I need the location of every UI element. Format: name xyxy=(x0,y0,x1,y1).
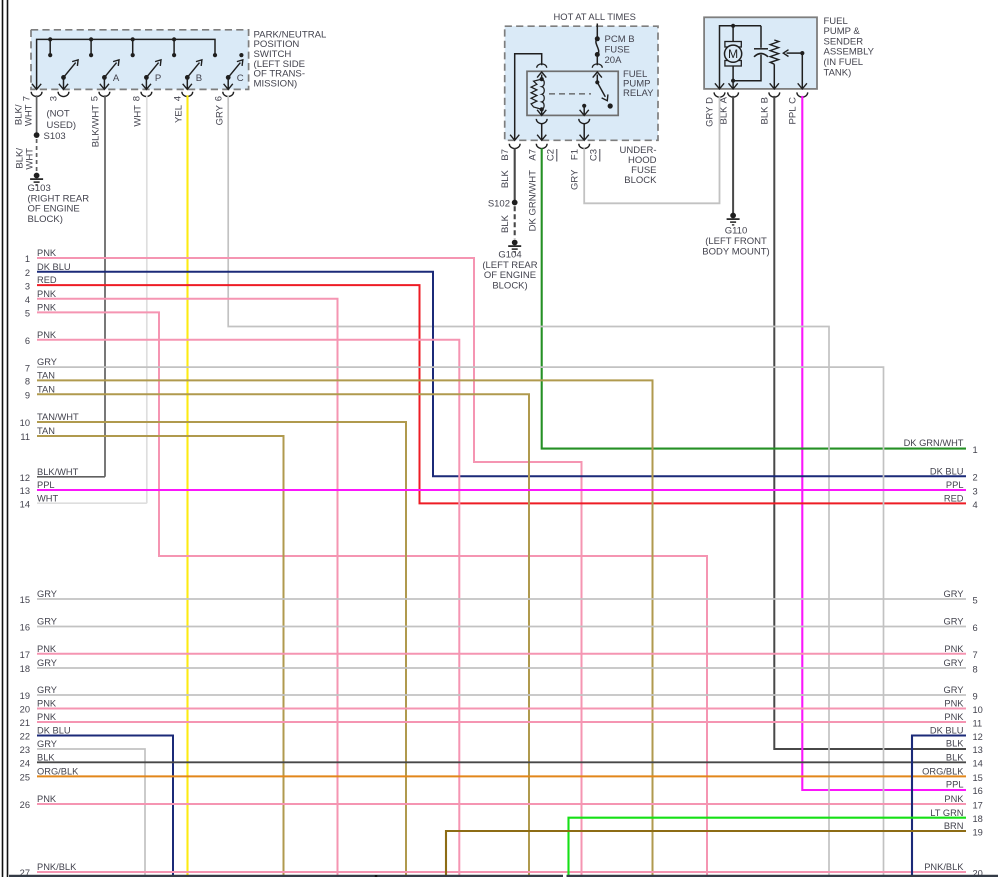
capacitor C1 xyxy=(754,26,768,57)
fuel pump and sender assembly box xyxy=(704,17,817,89)
svg-text:M: M xyxy=(728,47,738,61)
wire BRN PCM 19 xyxy=(446,821,983,877)
ground G103 xyxy=(28,173,90,225)
svg-text:PNK: PNK xyxy=(37,644,57,654)
wire WHT pin8 to row 14 xyxy=(146,95,148,503)
wire BLK S102 to G104 xyxy=(500,206,515,238)
relay pin 30 to fuse block edge xyxy=(579,119,590,140)
svg-text:DK BLU: DK BLU xyxy=(930,466,964,476)
svg-text:25: 25 xyxy=(20,773,30,783)
ground G104 xyxy=(482,240,537,292)
svg-text:1: 1 xyxy=(973,445,978,455)
svg-text:7: 7 xyxy=(25,363,30,373)
wire PPL pump C to PCM 16 xyxy=(802,96,983,796)
svg-text:DK BLU: DK BLU xyxy=(930,726,964,736)
svg-text:GRY: GRY xyxy=(215,104,226,125)
svg-text:(NOT: (NOT xyxy=(47,109,70,120)
switch blade C xyxy=(224,58,246,90)
splice S102 xyxy=(488,198,518,209)
svg-text:S103: S103 xyxy=(44,131,66,142)
switch pin 8 terminal xyxy=(132,92,152,127)
wire BLK pump A to G110 xyxy=(732,96,734,213)
svg-text:15: 15 xyxy=(20,595,30,605)
pump pin A terminal xyxy=(719,83,739,124)
wire TAN/WHT left row 10 xyxy=(20,412,406,877)
svg-text:PNK: PNK xyxy=(37,248,57,258)
switch bus wire xyxy=(37,39,215,89)
svg-text:GRY: GRY xyxy=(37,658,57,668)
svg-text:C2: C2 xyxy=(546,149,557,161)
svg-text:BLK: BLK xyxy=(760,106,771,125)
svg-text:9: 9 xyxy=(25,390,30,400)
svg-text:3: 3 xyxy=(973,486,978,496)
svg-text:GRY: GRY xyxy=(37,617,57,627)
wire PPL left row 13 xyxy=(20,480,966,496)
svg-text:12: 12 xyxy=(20,473,30,483)
svg-text:USED): USED) xyxy=(47,120,77,131)
svg-text:1: 1 xyxy=(25,254,30,264)
svg-text:15: 15 xyxy=(973,773,983,783)
svg-text:BLK/WHT: BLK/WHT xyxy=(37,467,79,477)
svg-text:11: 11 xyxy=(20,432,30,442)
svg-text:4: 4 xyxy=(25,295,30,305)
switch pin 7 terminal xyxy=(14,84,43,126)
wire DK BLU left row 22 xyxy=(20,726,173,877)
svg-text:BLK B7: BLK B7 xyxy=(500,149,511,188)
svg-text:6: 6 xyxy=(973,623,978,633)
wire RED left row 3 xyxy=(25,275,966,503)
park/neutral position switch S1 box xyxy=(31,30,249,90)
wire BLK/WHT left row 12 xyxy=(20,467,105,483)
svg-text:11: 11 xyxy=(973,718,983,728)
switch pin 5 terminal xyxy=(90,92,110,147)
svg-text:BLOCK): BLOCK) xyxy=(492,280,527,291)
pump internal bus wires xyxy=(720,24,762,89)
svg-text:PNK: PNK xyxy=(37,303,57,313)
svg-text:6: 6 xyxy=(25,336,30,346)
switch pin 3 terminal (not used) xyxy=(47,92,77,131)
wire PNK left row 21 xyxy=(20,712,966,728)
svg-text:20: 20 xyxy=(20,705,30,715)
svg-text:13: 13 xyxy=(973,745,983,755)
svg-text:PNK: PNK xyxy=(37,289,57,299)
switch bus junction dots xyxy=(48,37,176,41)
battery feed wire xyxy=(596,24,598,39)
svg-text:9: 9 xyxy=(973,691,978,701)
wire GRY left row 23 xyxy=(20,739,145,877)
wire GRY F1 to pump pin D xyxy=(584,96,719,203)
wire PNK left row 5 xyxy=(25,303,707,877)
svg-text:20A: 20A xyxy=(605,55,623,66)
svg-text:BODY MOUNT): BODY MOUNT) xyxy=(702,246,769,257)
svg-text:WHT: WHT xyxy=(24,104,35,126)
svg-text:18: 18 xyxy=(973,814,983,824)
svg-text:12: 12 xyxy=(973,732,983,742)
wire DK GRN/WHT A7 to PCM 1 xyxy=(542,148,978,455)
svg-text:19: 19 xyxy=(973,827,983,837)
switch pin 4 terminal xyxy=(173,92,193,123)
fuel level sender R1 xyxy=(770,40,779,89)
svg-text:17: 17 xyxy=(20,650,30,660)
wire BLK pump B to PCM 13 xyxy=(774,96,983,755)
fuel pump relay box xyxy=(527,71,618,115)
svg-text:TAN: TAN xyxy=(37,371,55,381)
svg-text:YEL: YEL xyxy=(174,105,185,123)
svg-text:21: 21 xyxy=(20,718,30,728)
svg-text:C3: C3 xyxy=(589,149,600,161)
wire BLK/WHT pin5 to row 12 xyxy=(104,95,106,477)
wire DK BLU left row 2 xyxy=(25,262,966,477)
svg-text:BRN: BRN xyxy=(944,821,964,831)
switch fixed contact dots xyxy=(48,53,243,57)
label fuel pump and sender assembly xyxy=(824,16,875,79)
svg-text:FUSE: FUSE xyxy=(605,44,630,55)
svg-text:PNK/BLK: PNK/BLK xyxy=(37,862,77,872)
svg-text:8: 8 xyxy=(132,96,143,101)
svg-text:GRY F1: GRY F1 xyxy=(570,149,581,190)
svg-text:10: 10 xyxy=(20,418,30,428)
svg-text:TAN: TAN xyxy=(37,384,55,394)
fuse PCM B 20A xyxy=(595,34,635,66)
svg-text:5: 5 xyxy=(90,96,101,101)
wire PNK left row 4 xyxy=(25,289,338,877)
svg-text:BLK/WHT: BLK/WHT xyxy=(91,105,102,147)
svg-text:BLOCK): BLOCK) xyxy=(28,214,63,225)
wire fuse to relay xyxy=(592,55,602,68)
svg-text:RED: RED xyxy=(944,494,964,504)
svg-text:17: 17 xyxy=(973,800,983,810)
svg-text:WHT: WHT xyxy=(25,148,36,170)
svg-text:PNK: PNK xyxy=(944,644,964,654)
splice S103 xyxy=(34,131,66,142)
wire DK BLU PCM 12 xyxy=(912,726,983,877)
svg-text:DK GRN/WHT A7: DK GRN/WHT A7 xyxy=(528,149,539,231)
svg-text:PPL: PPL xyxy=(946,780,964,790)
svg-text:22: 22 xyxy=(20,732,30,742)
svg-text:13: 13 xyxy=(20,486,30,496)
svg-text:3: 3 xyxy=(49,96,60,101)
ground G110 xyxy=(702,213,769,258)
svg-text:BLK: BLK xyxy=(500,214,511,233)
switch fixed contact stubs xyxy=(50,39,174,55)
wire GRY left row 15 xyxy=(20,589,966,605)
svg-text:PNK: PNK xyxy=(37,330,57,340)
svg-text:S102: S102 xyxy=(488,198,510,209)
wire GRY left row 16 xyxy=(20,617,966,633)
svg-text:WHT: WHT xyxy=(133,105,144,127)
connector C2 xyxy=(546,149,557,162)
svg-text:PNK: PNK xyxy=(944,794,964,804)
label underhood fuse block xyxy=(620,145,658,186)
wire PNK/BLK left row 27 xyxy=(20,862,966,877)
svg-text:GRY: GRY xyxy=(944,658,964,668)
svg-text:C: C xyxy=(237,73,244,84)
svg-text:BLK: BLK xyxy=(946,752,964,762)
fuse block pin B7 xyxy=(500,135,520,188)
fuse block pin A7 xyxy=(528,144,548,232)
svg-text:B: B xyxy=(760,97,771,103)
svg-text:5: 5 xyxy=(25,309,30,319)
relay coil feed wire xyxy=(515,54,547,139)
svg-text:WHT: WHT xyxy=(37,493,58,503)
svg-text:6: 6 xyxy=(214,96,225,101)
svg-text:4: 4 xyxy=(173,96,184,101)
svg-text:C: C xyxy=(788,97,799,104)
wire LT GRN PCM 18 xyxy=(569,808,983,877)
svg-text:GRY: GRY xyxy=(944,685,964,695)
svg-text:PNK: PNK xyxy=(944,712,964,722)
svg-text:DK BLU: DK BLU xyxy=(37,262,71,272)
svg-text:TAN/WHT: TAN/WHT xyxy=(37,412,79,422)
svg-text:LT GRN: LT GRN xyxy=(930,808,963,818)
label hot at all times xyxy=(554,11,636,22)
page border lines xyxy=(3,0,8,877)
svg-text:14: 14 xyxy=(973,759,983,769)
svg-text:B: B xyxy=(196,73,202,84)
svg-text:PPL: PPL xyxy=(37,480,55,490)
svg-text:DK GRN/WHT: DK GRN/WHT xyxy=(904,438,964,448)
connector C3 xyxy=(589,149,600,162)
svg-text:GRY: GRY xyxy=(37,685,57,695)
wire BLK/WHT S103 to G103 xyxy=(15,139,37,172)
svg-text:GRY: GRY xyxy=(944,589,964,599)
svg-text:18: 18 xyxy=(20,664,30,674)
bottom module edge xyxy=(9,875,998,877)
wire GRY left row 19 xyxy=(20,685,966,701)
svg-text:PNK: PNK xyxy=(944,699,964,709)
wire PNK left row 1 xyxy=(25,248,582,877)
switch blade P xyxy=(142,58,164,90)
wire GRY pin6 xyxy=(228,95,829,877)
pump pin D terminal xyxy=(705,83,725,127)
wire GRY left row 18 xyxy=(20,658,966,674)
svg-text:PPL: PPL xyxy=(946,480,964,490)
svg-text:19: 19 xyxy=(20,691,30,701)
relay coil xyxy=(531,77,546,115)
svg-text:10: 10 xyxy=(973,705,983,715)
wire PNK left row 17 xyxy=(20,644,966,660)
wire PNK left row 6 xyxy=(25,330,459,877)
switch blade pin3 xyxy=(59,58,81,90)
wire WHT left row 14 xyxy=(20,493,147,509)
label fuel pump relay xyxy=(623,69,654,99)
wire ORG/BLK left row 25 xyxy=(20,767,966,783)
relay pin 87 to fuse block edge xyxy=(536,119,547,140)
svg-text:5: 5 xyxy=(973,595,978,605)
wire PNK left row 26 xyxy=(20,794,966,810)
svg-text:GRY: GRY xyxy=(944,617,964,627)
svg-text:8: 8 xyxy=(973,664,978,674)
wire TAN left row 8 xyxy=(25,371,653,877)
label park/neutral position switch xyxy=(254,29,328,89)
svg-text:16: 16 xyxy=(20,623,30,633)
svg-text:D: D xyxy=(705,97,716,104)
svg-text:GRY: GRY xyxy=(705,106,716,127)
svg-text:GRY: GRY xyxy=(37,739,57,749)
wire TAN left row 9 xyxy=(25,384,529,877)
svg-text:23: 23 xyxy=(20,745,30,755)
svg-text:24: 24 xyxy=(20,759,30,769)
svg-text:TAN: TAN xyxy=(37,426,55,436)
wire BLK left row 24 xyxy=(20,752,966,768)
svg-text:7: 7 xyxy=(22,96,33,101)
svg-text:PNK: PNK xyxy=(37,794,57,804)
pump pin C terminal xyxy=(788,83,808,124)
svg-text:BLK: BLK xyxy=(946,739,964,749)
svg-text:ORG/BLK: ORG/BLK xyxy=(922,767,964,777)
svg-text:2: 2 xyxy=(25,268,30,278)
svg-text:BLOCK: BLOCK xyxy=(624,175,657,186)
wire TAN left row 11 xyxy=(20,426,283,877)
svg-text:4: 4 xyxy=(973,500,978,510)
underhood fuse block box xyxy=(505,26,658,140)
svg-text:RELAY: RELAY xyxy=(623,88,654,99)
svg-text:26: 26 xyxy=(20,800,30,810)
wire PNK left row 20 xyxy=(20,699,966,715)
switch pin 6 terminal xyxy=(214,92,234,126)
svg-text:14: 14 xyxy=(20,499,30,509)
svg-text:DK BLU: DK BLU xyxy=(37,726,71,736)
fuse block pin F1 xyxy=(570,144,590,190)
right row labels for through wires xyxy=(922,466,983,877)
svg-text:PNK: PNK xyxy=(37,699,57,709)
svg-text:8: 8 xyxy=(25,377,30,387)
svg-text:GRY: GRY xyxy=(37,589,57,599)
svg-text:RED: RED xyxy=(37,275,57,285)
sender wiper arm xyxy=(783,50,804,89)
svg-text:HOT AT ALL TIMES: HOT AT ALL TIMES xyxy=(554,11,636,22)
svg-text:PNK/BLK: PNK/BLK xyxy=(924,862,964,872)
svg-text:ORG/BLK: ORG/BLK xyxy=(37,767,79,777)
svg-text:16: 16 xyxy=(973,786,983,796)
wire BLK B7 to S102 xyxy=(514,148,516,202)
wire YEL pin4 xyxy=(186,95,188,877)
svg-text:A: A xyxy=(113,73,120,84)
svg-text:3: 3 xyxy=(25,281,30,291)
relay mechanical link (dashed) xyxy=(549,93,591,95)
relay switch xyxy=(580,72,613,115)
switch blade A xyxy=(100,58,122,90)
svg-text:7: 7 xyxy=(973,650,978,660)
svg-text:TANK): TANK) xyxy=(824,67,852,78)
svg-text:PPL: PPL xyxy=(788,107,799,125)
svg-text:2: 2 xyxy=(973,473,978,483)
svg-text:P: P xyxy=(155,73,161,84)
switch blade B xyxy=(183,58,205,90)
svg-text:GRY: GRY xyxy=(37,357,57,367)
wire GRY left row 7 xyxy=(25,357,884,877)
fuel pump motor M1 xyxy=(725,42,742,67)
svg-text:G110: G110 xyxy=(725,226,748,237)
svg-text:BLK: BLK xyxy=(37,752,55,762)
wire BLK/WHT pin7 to S103 xyxy=(36,95,38,135)
svg-text:MISSION): MISSION) xyxy=(254,78,298,89)
svg-text:PNK: PNK xyxy=(37,712,57,722)
pump pin B terminal xyxy=(760,83,780,124)
